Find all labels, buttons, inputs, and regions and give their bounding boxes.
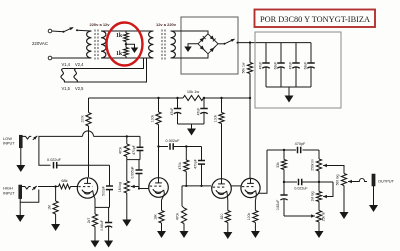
mains terminal top — [48, 29, 52, 33]
svg-text:100k: 100k — [213, 115, 217, 123]
resistor R heater 1k upper — [125, 31, 127, 33]
svg-text:1M log: 1M log — [118, 182, 122, 192]
pi filter cap 47uF left — [176, 97, 178, 99]
ground 500k pot — [343, 186, 345, 213]
svg-text:0.002uF: 0.002uF — [166, 139, 181, 143]
svg-text:56k 1w: 56k 1w — [241, 62, 245, 73]
heater filament symbol V1 — [61, 69, 65, 83]
svg-text:470k: 470k — [119, 147, 123, 155]
resistor 470k mixer — [185, 145, 187, 147]
svg-text:47uF: 47uF — [288, 62, 292, 70]
wire V3 cathode to 820 — [226, 195, 228, 211]
resistor 1M grid — [55, 187, 57, 202]
ground 470k grid leak — [183, 224, 185, 232]
potentiometer 500k log master — [341, 174, 346, 186]
bridge rectifier D1-D4 — [198, 34, 218, 54]
svg-text:POR D3C80 Y TONYGT-IBIZA: POR D3C80 Y TONYGT-IBIZA — [260, 15, 370, 24]
tube V4 — [241, 178, 260, 197]
ground 18k — [161, 223, 163, 231]
svg-text:0.022uF: 0.022uF — [294, 186, 308, 190]
wire V3 to V4 grid — [231, 185, 241, 187]
svg-text:500pF: 500pF — [101, 186, 105, 196]
wire wiper to V2 grid — [135, 187, 149, 189]
svg-text:100k: 100k — [247, 213, 251, 221]
ground 1M — [55, 214, 57, 224]
svg-text:INPUT: INPUT — [3, 190, 15, 195]
svg-text:1M log: 1M log — [311, 191, 315, 201]
svg-text:47uF: 47uF — [258, 62, 262, 70]
bus treble network bottom — [127, 159, 140, 161]
resistor 100k V1 plate — [88, 98, 90, 113]
svg-text:500 log: 500 log — [336, 174, 340, 185]
svg-text:100k: 100k — [81, 115, 85, 123]
resistor R heater 1k lower — [124, 48, 129, 57]
wire V1 cathode — [93, 195, 95, 208]
filter capacitor box — [255, 32, 341, 108]
capacitor 470pF treble bleed — [139, 136, 141, 147]
red highlight ellipse — [107, 23, 143, 66]
ground HIGH input — [19, 202, 21, 215]
wire T2 secondary bottom to bridge — [171, 54, 209, 58]
svg-text:100k: 100k — [150, 115, 154, 123]
svg-text:250k lin: 250k lin — [311, 159, 315, 171]
wire HIGH input with jack contact — [22, 187, 31, 190]
svg-text:1k: 1k — [116, 33, 123, 39]
power switch S1 — [52, 30, 64, 33]
svg-text:820: 820 — [220, 214, 224, 220]
wire switch to T1 primary — [77, 29, 92, 32]
heater filament symbol V2 — [74, 69, 78, 83]
wire B+ drop to V4 plate — [249, 74, 251, 179]
rectifier box — [181, 17, 238, 74]
wire V2 plate — [158, 125, 160, 179]
filter cap C3 47uF — [295, 43, 297, 63]
ground cathode cap — [104, 241, 113, 248]
heater wire V1,5 V2,5 — [64, 58, 147, 82]
svg-text:33k: 33k — [276, 162, 280, 168]
wire V4 cathode to tone stack — [258, 150, 267, 193]
resistor 56k 1w B+ dropper — [249, 43, 251, 63]
mid wire with 0.022uF — [284, 181, 297, 183]
ground filter caps — [288, 87, 290, 96]
wire B+ bus — [238, 42, 312, 44]
svg-text:220VAC: 220VAC — [32, 41, 48, 46]
ground center tap — [126, 44, 135, 47]
resistor 470k V3 grid leak — [181, 186, 183, 206]
wire cap to 500pF leg — [57, 164, 110, 166]
wire V2 plate coupling — [157, 145, 159, 147]
wire treble wiper to volume — [327, 166, 344, 174]
filter cap C1 47uF — [265, 43, 267, 63]
svg-text:0.68uF: 0.68uF — [100, 220, 104, 231]
svg-text:1M: 1M — [48, 205, 52, 210]
wire T2 secondary top to bridge — [171, 31, 209, 34]
filter cap bottom bus — [266, 86, 311, 88]
svg-text:470pF: 470pF — [193, 159, 197, 169]
node treble network top — [126, 135, 128, 137]
svg-text:470k: 470k — [176, 213, 180, 221]
capacitor 0.68uF cathode bypass — [108, 207, 110, 222]
ground tone stack — [318, 222, 320, 231]
wire V2 cathode to 18k — [162, 194, 165, 211]
svg-text:63uF: 63uF — [273, 62, 277, 70]
jack HIGH input — [19, 185, 22, 199]
svg-text:0.005uF: 0.005uF — [131, 166, 135, 178]
pi filter cap 47uF right — [203, 97, 205, 99]
resistor 33k slope — [283, 149, 285, 151]
svg-text:220v a 12v: 220v a 12v — [89, 22, 110, 27]
svg-text:1k: 1k — [116, 51, 123, 57]
svg-text:2k7: 2k7 — [87, 218, 91, 224]
crossover hump over V1 plate line — [83, 131, 94, 137]
potentiometer 1M log volume — [126, 160, 128, 181]
wire to 25k wiper — [284, 215, 313, 217]
wire LOW input with jack contact — [22, 136, 31, 139]
resistor 2k7 cathode — [94, 207, 96, 214]
capacitor 500pF — [109, 165, 111, 186]
jack switch loop — [20, 190, 39, 203]
potentiometer 250k lin treble — [318, 150, 320, 159]
potentiometer 25k lin mid — [318, 202, 320, 211]
capacitor 0.022uF — [53, 162, 55, 169]
svg-text:10k 1w: 10k 1w — [187, 89, 200, 94]
resistor 100k V2 plate — [157, 97, 159, 99]
svg-text:0.022uF: 0.022uF — [47, 158, 62, 162]
capacitor 470pF mixer — [201, 147, 203, 161]
resistor 18k V2 cathode — [159, 211, 164, 224]
tube V3 — [212, 179, 232, 199]
ground 2k7 — [94, 227, 96, 241]
wire bass wiper junction — [327, 182, 333, 197]
potentiometer 1M log bass — [318, 182, 320, 192]
ground LOW input — [20, 148, 22, 165]
wire V4 cathode to 100k — [255, 195, 256, 211]
svg-text:470k: 470k — [178, 162, 182, 170]
tube V1 — [77, 178, 97, 198]
wire V1 plate — [88, 126, 90, 177]
wire bottom terminal to T1 primary — [52, 57, 92, 59]
svg-text:63uF: 63uF — [303, 62, 307, 70]
capacitor 0.002uF coupling — [169, 143, 171, 150]
resistor 100k V3 plate — [220, 97, 222, 99]
cathode bus V1 — [95, 206, 110, 208]
standby switch S2 — [218, 43, 225, 45]
title box POR D3C80 Y TONYGT-IBIZA — [255, 10, 376, 28]
svg-text:18k: 18k — [153, 214, 157, 220]
plate supply rail — [89, 97, 184, 99]
ground 820 — [227, 223, 229, 233]
ground 100k cathode — [254, 223, 256, 232]
wire V3 plate — [221, 124, 223, 179]
resistor 470k treble bleed — [126, 136, 128, 144]
ground volume pot — [126, 193, 128, 220]
wire V3 grid bus — [182, 185, 211, 187]
svg-text:68k: 68k — [61, 178, 67, 183]
wire master wiper to output jack — [352, 181, 358, 183]
svg-text:47uF: 47uF — [196, 108, 200, 116]
resistor 10k 1w rail — [183, 95, 204, 100]
resistor 100k V4 cathode — [253, 211, 258, 223]
jack LOW input — [19, 135, 22, 148]
capacitor 0.82uF — [283, 181, 285, 183]
output jack tip contact — [358, 178, 367, 181]
node heater center tap — [125, 43, 127, 45]
heater wire V1,4 V2,4 — [63, 58, 144, 69]
svg-text:47uF: 47uF — [170, 108, 174, 116]
mains terminal bottom — [48, 56, 52, 60]
svg-text:25k lin: 25k lin — [321, 212, 325, 222]
svg-text:12v a 220v: 12v a 220v — [156, 22, 177, 27]
svg-text:V1,5: V1,5 — [62, 86, 71, 91]
wire T1 secondary top to T2 primary — [101, 30, 154, 32]
capacitor 0.005uF — [138, 160, 140, 170]
tone stack top rail — [267, 149, 296, 151]
tube V2 — [149, 178, 169, 198]
svg-text:INPUT: INPUT — [3, 141, 15, 146]
svg-text:0.82uF: 0.82uF — [276, 200, 280, 211]
ground bridge negative — [188, 44, 198, 47]
filter cap C4 63uF — [310, 43, 312, 63]
resistor 820 V3 cathode — [225, 211, 230, 223]
svg-text:470pF: 470pF — [132, 145, 136, 155]
pi filter bottom bus and ground — [178, 123, 205, 125]
capacitor 470pF bright — [297, 147, 299, 154]
jack OUTPUT — [372, 174, 375, 186]
wire hump to tone network — [94, 135, 141, 137]
svg-text:V2,4: V2,4 — [75, 62, 84, 67]
wire T1 secondary bottom to T2 primary bottom — [101, 57, 154, 59]
filter cap C2 63uF — [280, 43, 282, 63]
wire LOW contact down to coupling cap — [39, 136, 51, 165]
svg-text:V1,4: V1,4 — [62, 62, 71, 67]
svg-text:OUTPUT: OUTPUT — [378, 179, 395, 184]
svg-text:V2,5: V2,5 — [75, 86, 84, 91]
svg-text:470pF: 470pF — [295, 142, 306, 146]
ground output jack — [373, 186, 375, 205]
resistor 68k grid stopper — [56, 186, 59, 188]
